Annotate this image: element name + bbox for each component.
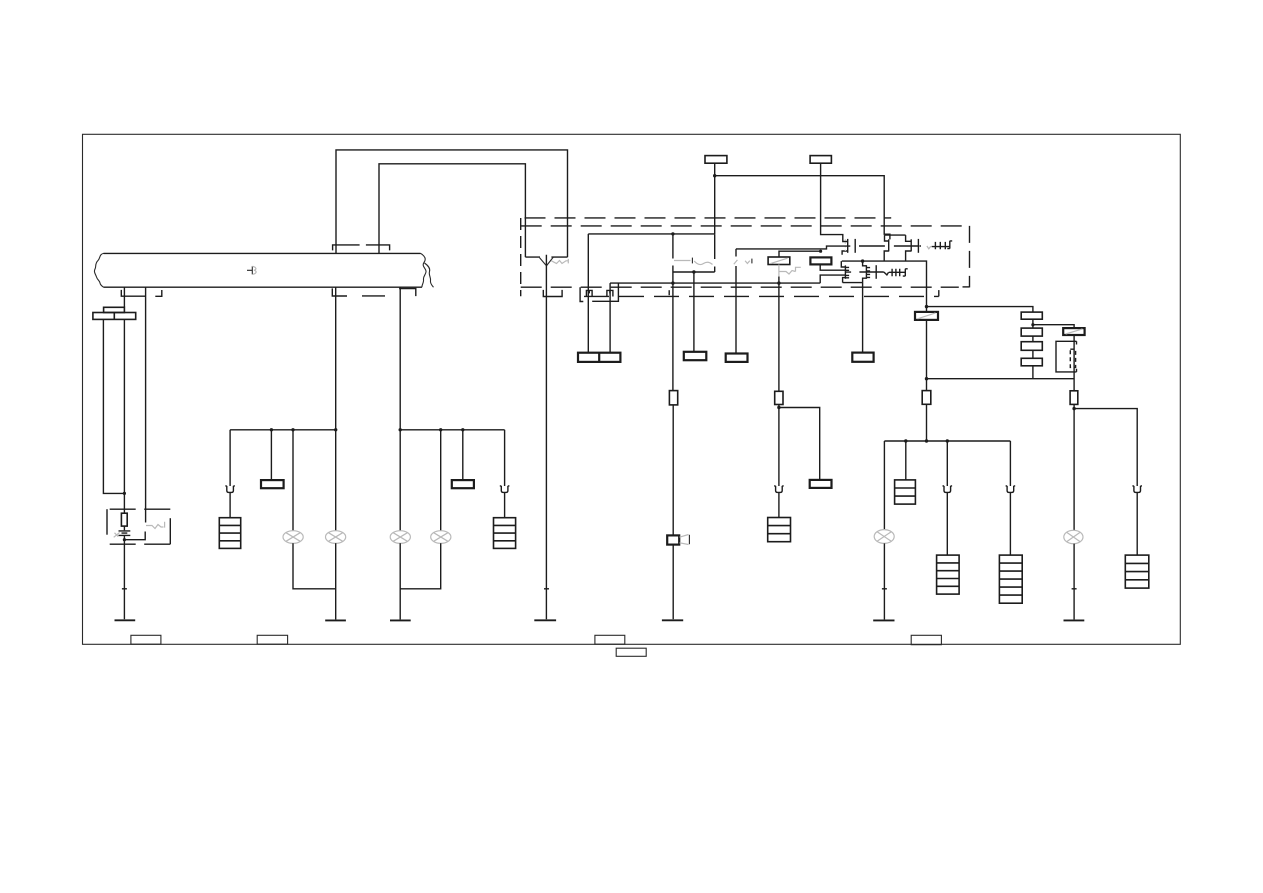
bus bottom-right connector bracket <box>332 288 416 296</box>
wire: to terminal <box>270 430 272 480</box>
relay coil 2 <box>915 312 938 320</box>
wire: branch to terminal <box>779 408 820 480</box>
wires: long verticals to double terminal <box>587 234 589 353</box>
wire: to resistor block left <box>229 430 231 486</box>
wire: bus drop lamp pair 2 <box>399 287 401 531</box>
ground <box>662 619 683 621</box>
wire: lamp bus B <box>400 429 504 431</box>
contact post <box>875 265 877 279</box>
connector clips <box>586 290 592 296</box>
wire: to resistor 5 <box>946 441 948 486</box>
contact bar <box>847 239 849 253</box>
fuse <box>669 391 677 405</box>
bracket piece <box>592 284 618 302</box>
terminal box <box>452 480 474 488</box>
connector bracket under switch <box>543 290 562 297</box>
ground tab 4 <box>911 635 941 644</box>
resistor block 4 rows <box>1125 555 1149 588</box>
wire: to resistor 6 <box>1009 441 1011 486</box>
battery / points symbol <box>114 522 165 620</box>
wire: group B to terminal <box>862 283 864 353</box>
wire: right vertical of horn switch <box>714 234 716 272</box>
ground <box>390 619 411 621</box>
bus top connector bracket <box>333 245 390 251</box>
wire: bus to battery box right <box>145 287 147 522</box>
ground tab 2 <box>257 635 287 644</box>
bracket piece <box>580 287 583 301</box>
fork contact symbol <box>540 257 569 266</box>
relay coil 1 lower lead <box>779 265 801 392</box>
resistor block 4 rows <box>494 518 516 549</box>
terminal box <box>810 480 832 488</box>
distributor dashed box <box>107 509 170 544</box>
resistor block 3 rows <box>768 518 791 542</box>
relay armature B <box>846 271 884 273</box>
connector stack 4 <box>1021 312 1042 366</box>
ground <box>873 619 894 621</box>
wire: switch output down to ground <box>545 255 547 620</box>
horn switch armature <box>674 258 752 265</box>
relay box dashed row 4 <box>584 295 939 297</box>
relay coil A <box>927 241 952 249</box>
wire: parallel loop from connector <box>103 319 124 493</box>
ground <box>325 619 346 621</box>
wire: lamp 4 <box>440 430 442 531</box>
left branch: wire bus to fuse boxes <box>123 287 125 307</box>
bus bottom-left connector bracket <box>121 290 162 296</box>
lamp <box>874 530 894 544</box>
ground <box>534 619 556 621</box>
relay contact group B left <box>841 261 862 283</box>
wire: bus top to upper loop inner <box>379 164 525 257</box>
wire: relay feed horizontal <box>588 233 714 235</box>
connector box B <box>93 313 136 320</box>
terminal box <box>726 354 748 362</box>
wire: switch output to terminal <box>693 272 695 352</box>
wire: to relay contact b <box>736 246 850 249</box>
wire: to resistor 3b <box>905 441 907 480</box>
wire: bus drop lamp pair 1 <box>335 287 337 530</box>
wire: top distribution <box>715 176 890 240</box>
lamp 2 <box>326 531 346 544</box>
wire: main right feed <box>926 320 928 391</box>
label box below border <box>616 648 646 656</box>
junction tick <box>544 588 549 590</box>
relay contact group B middle <box>863 261 871 283</box>
fuse <box>922 391 931 405</box>
pad terminal 1 <box>705 156 727 164</box>
fusible link box <box>810 257 831 264</box>
ground <box>1064 619 1085 621</box>
contact lower hook <box>842 251 848 255</box>
wire: lamp bus A <box>230 429 336 431</box>
connector box A <box>104 307 125 312</box>
wire: stack bottom loop <box>927 378 1074 380</box>
relay coil 3 <box>1063 328 1084 335</box>
relay box dashed row 3 <box>521 286 959 288</box>
connector clip <box>1132 486 1142 493</box>
lamp right <box>1064 530 1083 543</box>
horn <box>667 535 689 545</box>
junction tick <box>122 588 127 590</box>
relay box outer dashed row 1 <box>525 217 892 219</box>
lamp <box>283 531 303 544</box>
wire: pad1 down <box>714 163 716 234</box>
wire: lamp 1 <box>292 430 294 531</box>
ground tab 1 <box>131 635 161 644</box>
wire: horn feed down <box>672 266 674 391</box>
fuse <box>1070 391 1078 405</box>
resistor block 3 rows <box>895 480 916 504</box>
wire: lower bus <box>610 282 820 284</box>
relay group B frame <box>842 261 927 312</box>
bracket with dashed fuse <box>1056 341 1077 372</box>
resistor block 6 rows <box>999 555 1022 603</box>
relay coil B <box>884 269 908 277</box>
stray connector tick <box>668 290 670 295</box>
wire: coil3 down <box>1073 335 1075 391</box>
resistor block 4 rows <box>219 518 240 549</box>
resistor block 5 rows <box>937 555 960 594</box>
wire: to terminal <box>462 430 464 480</box>
wire: bus top to upper loop outer <box>336 150 568 257</box>
ignition switch component tie <box>525 256 567 258</box>
wire: through connector down to battery box <box>123 319 125 513</box>
connector clip <box>774 486 784 493</box>
relay box dashed left edge <box>520 218 522 296</box>
relay box dashed row 2 <box>521 225 970 227</box>
horn switch base <box>673 271 715 273</box>
double terminal box <box>578 353 620 362</box>
terminal box <box>852 353 873 362</box>
wire harness bus <box>94 253 433 287</box>
relay contact group A <box>855 235 921 261</box>
wire: lamp cluster feed right <box>884 440 1010 442</box>
terminal box <box>684 352 707 360</box>
relay box dashed right bracket <box>969 226 971 288</box>
border frame <box>83 134 1181 644</box>
wire: left vertical of horn switch <box>672 234 674 259</box>
fuse <box>775 391 783 404</box>
coil resistor <box>121 513 127 526</box>
relay coil 1 <box>768 257 790 265</box>
ground <box>115 619 136 621</box>
lamp 3 <box>390 531 410 544</box>
wire: to resistor block <box>504 430 506 486</box>
wire: gauge feed <box>927 307 1033 313</box>
wire: pad2 down to contact <box>821 163 848 241</box>
bus splice symbol <box>247 266 256 274</box>
pad terminal 2 <box>810 156 831 164</box>
terminal box <box>261 480 284 488</box>
wire: branch to relay coil 3 <box>1033 325 1074 328</box>
wire: branch right <box>1074 409 1137 486</box>
ground tab 3 <box>595 635 625 644</box>
